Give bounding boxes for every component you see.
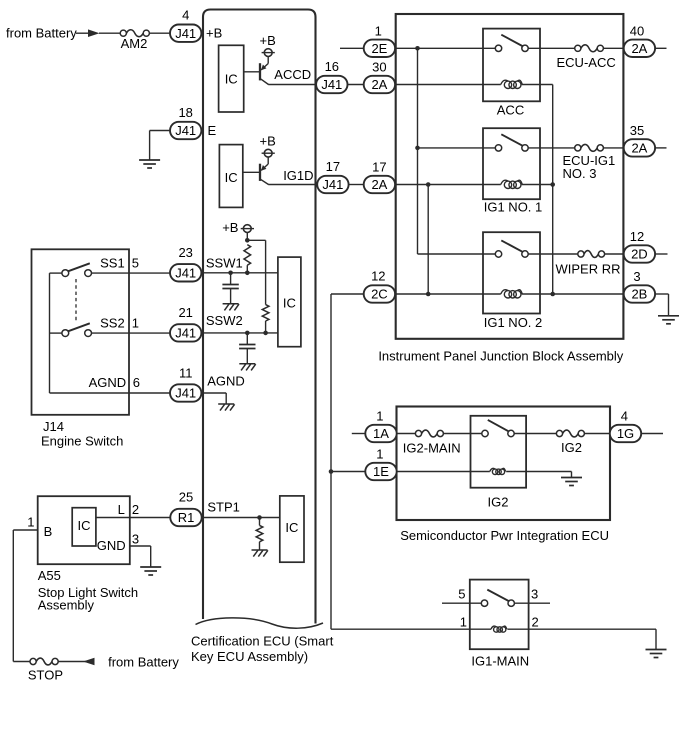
connector J41 pin 11 [170, 384, 201, 401]
resistor R-STP1 [259, 518, 261, 526]
svg-text:from Battery: from Battery [6, 26, 77, 41]
svg-text:12: 12 [630, 229, 644, 244]
J14 Engine Switch box [32, 249, 130, 414]
svg-text:+B: +B [222, 220, 238, 235]
terminal +B (SSW) [243, 225, 251, 233]
wire AM2 to J41 pin4 [149, 32, 170, 34]
svg-text:16: 16 [325, 59, 339, 74]
relay IG2 box [471, 416, 527, 488]
wire 2A-35 stub right [655, 147, 666, 149]
wire IG2 switch to fuse IG2 [514, 433, 556, 435]
wire feedA to IG1NO2 switch [418, 253, 496, 255]
node STP1 [257, 515, 262, 520]
wire 2E to ACC switch [395, 47, 495, 49]
svg-text:5: 5 [458, 587, 465, 602]
svg-text:1G: 1G [617, 426, 634, 441]
connector J41 pin 18 [170, 122, 201, 139]
wire 2D stub right [655, 253, 667, 255]
wire SSW2 (J41 pin21 to IC) [201, 332, 278, 334]
svg-text:17: 17 [326, 159, 340, 174]
svg-text:1: 1 [376, 408, 383, 423]
relay IG1 NO.2 blade [501, 240, 523, 252]
svg-text:17: 17 [372, 159, 386, 174]
svg-text:SS2: SS2 [100, 316, 125, 331]
svg-text:+B: +B [206, 26, 222, 41]
svg-text:1: 1 [376, 446, 383, 461]
relay IG1 NO.1 box [483, 128, 540, 199]
A55 Stop Light Switch box [38, 496, 130, 564]
svg-text:STOP: STOP [28, 667, 63, 682]
svg-text:R1: R1 [178, 510, 195, 525]
ground (AGND, signal) [218, 403, 234, 405]
fuse STOP [30, 658, 36, 664]
svg-text:6: 6 [133, 375, 140, 390]
svg-text:J41: J41 [175, 326, 196, 341]
svg-text:E: E [208, 123, 217, 138]
relay IG1 NO.1 blade [501, 134, 523, 146]
wire 2C to IG1NO2 coil [395, 293, 501, 295]
wire feed A [417, 48, 419, 254]
connector R1 pin 25 [170, 509, 201, 526]
relay IG1 NO.2 contacts [495, 251, 501, 257]
Instrument Panel Junction Block Assembly box [396, 14, 624, 339]
wire SS1 to J41 pin23 [92, 272, 171, 274]
wire 2C drop down [330, 294, 332, 629]
wire IG2 coil to ground [506, 471, 571, 473]
svg-text:5: 5 [132, 256, 139, 271]
fuse AM2 [120, 30, 126, 36]
svg-text:2: 2 [132, 502, 139, 517]
relay ACC blade [501, 35, 523, 47]
svg-text:IG1D: IG1D [283, 168, 313, 183]
svg-text:SS1: SS1 [100, 256, 125, 271]
node SSW1-R [245, 271, 250, 276]
svg-text:L: L [118, 502, 125, 517]
svg-text:J41: J41 [175, 26, 196, 41]
ground (STP1, signal) [252, 549, 268, 551]
connector 2B pin 3 [624, 285, 655, 302]
svg-text:IC: IC [225, 72, 238, 87]
wire feed B [427, 185, 429, 295]
svg-text:J41: J41 [175, 266, 196, 281]
connector 1E pin 1 [365, 463, 396, 480]
relay IG1 NO.1 coil [504, 181, 511, 188]
svg-text:1E: 1E [373, 464, 389, 479]
svg-text:1: 1 [132, 316, 139, 331]
wire 2A-40 stub right [655, 47, 666, 49]
svg-text:IC: IC [78, 518, 91, 533]
wire feedA to IG1NO1 switch [418, 147, 496, 149]
svg-text:+B: +B [260, 134, 276, 149]
arrow right (battery feed) [88, 29, 100, 37]
wire 1G stub right [641, 433, 663, 435]
svg-text:35: 35 [630, 123, 644, 138]
wire arrow to fuse AM2 [99, 32, 120, 34]
ground (2B) [658, 315, 679, 317]
relay IG2 blade [488, 420, 509, 432]
fuse ECU-IG1 NO.3 [575, 145, 581, 151]
wire fuse to 2D [605, 253, 624, 255]
svg-text:IC: IC [283, 295, 296, 310]
node coil common bottom [550, 292, 555, 297]
arrow left (battery feed bottom) [83, 658, 95, 666]
relay ACC box [483, 29, 540, 102]
wire J41-16 to 2A-30 [348, 84, 364, 86]
svg-text:Engine Switch: Engine Switch [41, 434, 123, 449]
node SSW1-cap [228, 271, 233, 276]
wire 2C to left drop [331, 293, 364, 295]
wire IC to Q2 base [243, 171, 260, 173]
wire R to SSW1 line [246, 265, 248, 273]
connector 2A pin 40 [624, 40, 655, 57]
connector 2A pin 35 [624, 139, 655, 156]
switch SS1 [62, 270, 69, 277]
relay IG1-MAIN blade [487, 590, 509, 602]
capacitor C2 (SSW2) [246, 333, 248, 344]
svg-text:J41: J41 [321, 77, 342, 92]
wire L pin to R1 [96, 517, 170, 519]
svg-text:11: 11 [179, 365, 193, 380]
svg-text:4: 4 [621, 408, 628, 423]
node SSW2-cap [245, 331, 250, 336]
dashed link SS1-SS2 [75, 279, 77, 323]
relay IG1 NO.1 contacts [495, 145, 501, 151]
svg-text:18: 18 [178, 105, 192, 120]
svg-text:2A: 2A [631, 41, 647, 56]
svg-text:STP1: STP1 [207, 500, 240, 515]
ground (C2, signal) [239, 363, 255, 365]
node feedB bottom [426, 292, 431, 297]
svg-text:IG2-MAIN: IG2-MAIN [403, 440, 461, 455]
svg-text:2C: 2C [371, 287, 388, 302]
svg-text:NO. 3: NO. 3 [563, 166, 597, 181]
wire SSW1 (J41 pin23 to IC) [201, 272, 278, 274]
wire IG1NO2 switch to fuse [528, 253, 578, 255]
wire 2A-30 to ACC coil [395, 84, 501, 86]
svg-text:WIPER RR: WIPER RR [556, 262, 621, 277]
IC U2 box [219, 145, 242, 208]
wire B pin to STOP fuse [13, 529, 37, 531]
connector J41 pin 16 [316, 76, 347, 93]
connector 1G pin 4 [610, 425, 641, 442]
svg-text:B: B [44, 524, 53, 539]
wire fuse to 2A-35 [603, 147, 623, 149]
connector 2C pin 12 [364, 285, 395, 302]
wire +B to node [246, 233, 248, 242]
connector 2D pin 12 [624, 245, 655, 262]
svg-text:12: 12 [371, 268, 385, 283]
wire node to R2 branch [247, 239, 265, 241]
relay IG1-MAIN box [470, 580, 529, 650]
connector J41 pin 21 [170, 324, 201, 341]
wire fuse IG2 to 1G [584, 433, 609, 435]
svg-text:2E: 2E [371, 41, 387, 56]
svg-text:2A: 2A [371, 77, 387, 92]
svg-text:IG1-MAIN: IG1-MAIN [471, 654, 529, 669]
wire 1E to IG2 coil [331, 471, 365, 473]
svg-text:23: 23 [178, 245, 192, 260]
wire STP1 to IC [202, 517, 280, 519]
relay IG1 NO.2 box [483, 232, 540, 313]
wire IG1NO1 coil to common [522, 184, 553, 186]
svg-text:Certification ECU (Smart: Certification ECU (Smart [191, 633, 334, 648]
wire AGND bus (J14) [49, 273, 51, 393]
resistor R-SSW1 (pull-up) [244, 245, 251, 266]
wire fuse to IG2 relay [443, 433, 481, 435]
svg-text:30: 30 [372, 59, 386, 74]
IC U5 box [72, 508, 96, 546]
node feedA mid [415, 146, 420, 151]
svg-text:J41: J41 [175, 386, 196, 401]
svg-text:2A: 2A [371, 177, 387, 192]
wire AGND to ground [201, 392, 226, 394]
relay IG2 contacts [482, 430, 488, 436]
IC U1 box [219, 45, 244, 112]
wire ACC coil to common [522, 84, 553, 86]
svg-text:1: 1 [460, 615, 467, 630]
IC U4 box [280, 496, 304, 562]
capacitor C1 (SSW1) [230, 273, 232, 285]
connector 2A pin 30 [364, 76, 395, 93]
svg-text:IC: IC [225, 170, 238, 185]
svg-text:IG2: IG2 [561, 440, 582, 455]
wire J41-17 to 2A-17 [349, 184, 364, 186]
fuse ECU-ACC [575, 45, 581, 51]
svg-text:3: 3 [531, 587, 538, 602]
IC U3 box [278, 257, 301, 347]
connector J41 pin 23 [170, 264, 201, 281]
connector 1A pin 1 [365, 425, 396, 442]
relay IG1-MAIN coil [494, 627, 499, 632]
svg-text:from Battery: from Battery [108, 654, 179, 669]
node coil common mid [550, 182, 555, 187]
svg-text:2B: 2B [631, 287, 647, 302]
relay IG1-MAIN contacts [481, 600, 487, 606]
wire R to SSW2 line [265, 321, 267, 333]
wire STOP to arrow [58, 661, 94, 663]
relay IG2 coil [492, 469, 497, 474]
Semiconductor Pwr Integration ECU box [397, 407, 611, 521]
svg-text:AGND: AGND [89, 375, 127, 390]
wire SS1 stub [50, 272, 62, 274]
svg-text:4: 4 [182, 8, 189, 23]
svg-text:3: 3 [633, 269, 640, 284]
svg-text:1A: 1A [373, 426, 389, 441]
svg-text:+B: +B [260, 33, 276, 48]
svg-text:J41: J41 [175, 123, 196, 138]
wire SS2 stub [50, 332, 62, 334]
node 1E tap [329, 469, 334, 474]
ground (C1, signal) [223, 303, 239, 305]
svg-text:Instrument Panel Junction Bloc: Instrument Panel Junction Block Assembly [378, 348, 623, 363]
svg-text:2: 2 [532, 615, 539, 630]
node +B junction [245, 238, 250, 243]
wire Q1 emitter to J41 pin16 [268, 84, 316, 86]
svg-text:Key ECU Assembly): Key ECU Assembly) [191, 649, 308, 664]
wire Q2 emitter to J41 pin17 [268, 184, 316, 186]
wire 1E into box [397, 471, 490, 473]
fuse IG2 [556, 430, 562, 436]
fuse IG2-MAIN [415, 430, 421, 436]
node SSW2-R [263, 331, 268, 336]
relay IG1 NO.2 coil [504, 291, 511, 298]
ground (IG1-MAIN) [646, 649, 667, 651]
wire IG1-MAIN switch stub left [442, 602, 482, 604]
wire IG1-MAIN coil to ground [507, 628, 656, 630]
wire fuse to 2A-40 [603, 47, 623, 49]
svg-text:ACCD: ACCD [274, 67, 311, 82]
relay ACC coil [504, 81, 511, 88]
svg-text:J41: J41 [322, 177, 343, 192]
wire 1A stub left [352, 433, 366, 435]
connector 2E pin 1 [364, 40, 395, 57]
fuse WIPER RR [578, 251, 584, 257]
svg-text:1: 1 [375, 23, 382, 38]
wire IG1NO2 coil to 2B [522, 293, 624, 295]
wire IC to Q1 base [244, 71, 260, 73]
svg-text:SSW1: SSW1 [206, 255, 243, 270]
wire 2E stub [340, 47, 364, 49]
svg-text:1: 1 [27, 515, 34, 530]
svg-text:SSW2: SSW2 [206, 313, 243, 328]
svg-text:GND: GND [97, 538, 126, 553]
svg-text:AGND: AGND [207, 373, 245, 388]
svg-text:25: 25 [179, 489, 193, 504]
wire battery to arrow [76, 32, 88, 34]
wire IG1NO1 switch to fuse [528, 147, 575, 149]
wire ACC switch to fuse [528, 47, 575, 49]
wire IG1-MAIN switch stub right [515, 602, 550, 604]
wire 2B to ground [655, 293, 668, 295]
connector J41 pin 4 [170, 25, 201, 42]
ground (IG2 coil) [561, 477, 582, 479]
svg-text:ACC: ACC [497, 103, 524, 118]
svg-text:2A: 2A [631, 141, 647, 156]
node feedA top [415, 46, 420, 51]
svg-text:AM2: AM2 [121, 36, 148, 51]
svg-text:IC: IC [285, 520, 298, 535]
switch SS2 [62, 330, 69, 337]
relay ACC contacts [495, 45, 501, 51]
ground (A55 GND) [140, 566, 161, 568]
resistor R-SSW2 (pull-up) [262, 305, 269, 321]
connector 2A pin 17 [364, 176, 395, 193]
wire SS2 to J41 pin21 [92, 332, 171, 334]
svg-text:IG1 NO. 1: IG1 NO. 1 [484, 200, 543, 215]
svg-text:2D: 2D [631, 247, 648, 262]
node feedB top [426, 182, 431, 187]
svg-text:3: 3 [132, 532, 139, 547]
ground (pin 18) [139, 159, 160, 161]
wire J41 pin18 to ground [150, 130, 170, 132]
Certification ECU body (Smart Key ECU Assembly) [203, 10, 316, 624]
wire 2A-17 to IG1NO1 coil [395, 184, 501, 186]
connector J41 pin 17 [317, 176, 348, 193]
svg-text:IG1 NO. 2: IG1 NO. 2 [484, 315, 543, 330]
svg-text:IG2: IG2 [488, 494, 509, 509]
svg-text:ECU-ACC: ECU-ACC [557, 55, 616, 70]
wire 1A to fuse IG2-MAIN [397, 433, 416, 435]
svg-text:40: 40 [630, 23, 644, 38]
svg-text:A55: A55 [38, 568, 61, 583]
svg-text:Assembly: Assembly [38, 598, 95, 613]
wire GND pin [130, 545, 151, 547]
svg-text:J14: J14 [43, 419, 64, 434]
svg-text:21: 21 [178, 305, 192, 320]
svg-text:Semiconductor Pwr Integration: Semiconductor Pwr Integration ECU [400, 528, 609, 543]
